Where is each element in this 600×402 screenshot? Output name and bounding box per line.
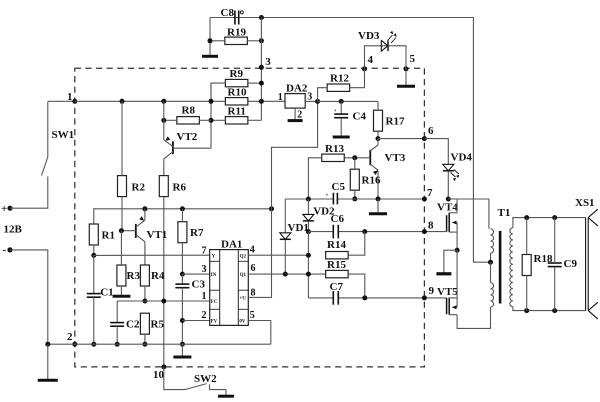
svg-text:+: + [334,109,337,114]
wire C8 left down [209,18,211,41]
wire C2 branch [116,301,118,322]
svg-text:R12: R12 [330,73,349,85]
wire R13 right lead [344,157,370,159]
wire R5 bottom lead [144,334,146,344]
svg-text:-: - [3,244,7,256]
ground rail wire node2 [48,343,271,345]
ground bottom left [47,344,49,380]
node 3 [259,65,264,70]
svg-text:R3: R3 [127,270,141,282]
resistor R4 [140,265,149,286]
svg-text:2: 2 [67,331,73,343]
junction R16 bottom [352,196,357,201]
svg-text:5: 5 [410,53,416,65]
wire R11 right lead [248,119,262,121]
svg-text:VT1: VT1 [147,229,168,241]
plus input terminal [7,206,12,211]
svg-text:IN: IN [211,273,217,278]
wire R8 left lead [164,119,177,121]
svg-text:4: 4 [250,245,255,256]
svg-text:R1: R1 [102,230,115,242]
wire node 6 to VD4 branch [424,139,448,165]
LED VD3 [381,40,388,51]
svg-text:R6: R6 [173,182,187,194]
junction primary center tap [488,260,493,265]
svg-text:8: 8 [428,220,434,232]
wire VT2 collector down to R6 [163,159,165,177]
transformer T1 secondary winding [510,228,513,307]
wire C9 top lead [554,218,556,263]
svg-text:VT4: VT4 [437,202,458,214]
junction common source point [455,248,460,253]
svg-text:C2: C2 [126,319,140,331]
svg-text:Q1: Q1 [240,273,247,278]
junction C2 bottom on rail [115,342,120,347]
IC DA2 box [285,94,305,109]
resistor R19 [225,37,248,44]
ground under C4 [333,136,350,139]
svg-text:10: 10 [153,369,165,381]
wire R12 left lead [318,88,328,102]
wire node10 to SW2 [164,367,185,390]
junction VD2 top on emitter line [306,197,311,202]
wire node7 line to primary top corner [448,199,489,229]
svg-text:R17: R17 [386,116,405,128]
ground at SW2 [225,390,227,397]
svg-text:C8: C8 [221,7,235,19]
junction VT2 emitter bus top [161,99,166,104]
svg-text:VT5: VT5 [437,286,458,298]
wire R18 top lead [526,218,528,255]
junction R14 left pin4 [306,253,311,258]
main wire node1 to DA2 pin1 [75,100,285,102]
svg-text:0V: 0V [239,319,246,324]
wire C7 line to node 9 [308,297,333,299]
resistor R14 [326,252,349,259]
junction VT1 collector on rail [142,206,147,211]
junction C1 bottom on rail [91,342,96,347]
wire R16 top lead [354,158,356,169]
junction C3 line on ground rail [180,342,185,347]
resistor R10 [225,98,248,105]
wire pin3 node to R17 top [318,100,378,102]
transformer T1 core [499,231,502,304]
wire SW2 to ground [210,389,227,391]
wire secondary top lead [513,218,586,228]
node 9 [422,295,427,300]
transistor VT1 [135,224,137,238]
wire VT2 base to R8 right bus [173,147,211,149]
wire minus terminal down to ground rail [10,250,48,344]
wire R8 right lead [199,119,211,121]
diode VD1 [284,199,286,233]
svg-text:T1: T1 [498,207,511,219]
resistor R16 [350,169,359,190]
wire R17 bottom lead [377,131,379,138]
svg-text:DA2: DA2 [286,83,308,95]
svg-text:7: 7 [427,187,433,199]
ground under sources [436,272,451,275]
wire R17 top lead [377,101,379,110]
svg-text:SW1: SW1 [52,129,75,141]
svg-text:R7: R7 [190,227,204,239]
resistor R11 [225,117,248,124]
wire SW1 to node 1 [48,100,75,102]
svg-text:R14: R14 [327,239,346,251]
junction VD4 bottom on node7 line [446,197,451,202]
wire R19 right lead [247,40,261,42]
wire pin 6 Q1 line [248,273,325,275]
svg-text:SW2: SW2 [194,373,217,385]
capacitor C3 [175,283,189,285]
junction VT3 emitter ground [376,196,381,201]
wire R1 bottom lead [93,245,95,255]
wire R9 right lead [248,82,262,84]
wire C9 bottom lead [554,267,556,311]
svg-text:C6: C6 [331,213,345,225]
resistor R5 [140,313,149,334]
junction node3 bus main wire [259,99,264,104]
svg-text:R15: R15 [327,259,346,271]
svg-text:C3: C3 [192,279,206,291]
resistor R1 [89,224,98,245]
svg-text:1: 1 [278,92,283,103]
ground under node 5 [405,69,407,86]
wire R2 top lead [121,101,123,175]
wire R6 bottom long vertical to FC and node 10 [163,197,165,367]
svg-text:R13: R13 [325,143,344,155]
node 5 [404,66,409,71]
junction DA2 pin3 node [315,99,320,104]
wire common point to ground [444,250,457,272]
svg-text:C4: C4 [353,111,367,123]
svg-text:R8: R8 [182,105,196,117]
wire VT4 source down to common point [456,223,458,251]
svg-text:R2: R2 [132,182,146,194]
wire C6 line to node 8 [308,231,333,233]
wire pin 2 FV line [182,320,209,322]
wire R12 right lead to node 4 [350,69,365,88]
wire R3 top lead [120,231,122,265]
transformer T1 primary lower winding [490,262,492,282]
junction VT1 base R2 R3 [119,228,124,233]
svg-text:1: 1 [67,91,73,103]
junction R4 R5 FC line [142,299,147,304]
svg-text:R9: R9 [230,68,244,80]
svg-text:C7: C7 [330,281,344,293]
ground bar under R3 [113,295,131,298]
LED VD4 [443,164,454,171]
diode VD2 [307,199,309,214]
wire plus terminal to SW1 [10,177,48,209]
capacitor C4 polarized [340,101,342,114]
wire vertical R9-R11 left bus [210,83,212,148]
wire VD2 bottom to R14 and pin6 [307,232,309,298]
ground under DA2 [288,119,303,122]
capacitor C7 [332,291,334,305]
junction C9 top [552,215,557,220]
junction R15 right on C7 line [362,295,367,300]
node 4 [362,66,367,71]
junction C3 pin2 wire [180,318,185,323]
wire R9 left lead [211,83,225,101]
junction R17 bottom VT3 collector [376,136,381,141]
junction R19 right [259,38,264,43]
wire pin 7 Y line [94,254,210,256]
svg-text:7: 7 [202,246,207,257]
svg-text:+U: +U [239,296,246,301]
junction R2 top [120,99,125,104]
wire R4 bottom lead [144,286,146,301]
resistor R2 [118,176,127,197]
svg-text:FC: FC [211,300,218,305]
wire R7 top lead [181,209,183,222]
resistor R6 [159,176,168,197]
node 10 [161,364,166,369]
wire VT5 top to common point [456,250,458,307]
node 7 [422,197,427,202]
wire secondary bottom lead [513,307,586,311]
junction R18 bottom [524,308,529,313]
capacitor C9 [548,262,562,264]
junction R18 top [524,215,529,220]
svg-text:+: + [326,194,329,199]
svg-text:R4: R4 [151,270,165,282]
wire R13 left lead down to VD line [308,158,321,199]
junction C9 bottom [552,308,557,313]
svg-text:3: 3 [202,264,207,275]
svg-text:DA1: DA1 [221,239,242,251]
svg-text:3: 3 [265,56,271,68]
wire R18 bottom lead [526,276,528,311]
switch SW2 [185,384,207,390]
resistor R18 [522,255,531,276]
resistor R17 [374,110,383,131]
junction minus wire on rail [45,342,50,347]
node 2 [72,342,77,347]
resistor R7 [178,222,187,243]
wire R3 bottom lead [120,286,122,295]
wire DA2 pin2 ground stem [294,108,296,120]
capacitor C2 [110,322,124,324]
svg-text:C9: C9 [564,258,578,270]
svg-text:C1: C1 [100,287,113,299]
svg-text:4: 4 [368,54,374,66]
svg-text:Q2: Q2 [240,254,247,259]
wire DA2 pin3 lead [305,100,317,102]
wire C3 bottom to pin2 junction [181,288,183,345]
junction R19 left [208,38,213,43]
wire emitter line VD1 to node 7 [285,198,333,200]
node 6 [422,136,427,141]
junction R6 FC line [161,299,166,304]
junction C4 top [339,99,344,104]
wire C2 bottom lead [116,326,118,344]
wire FC line [117,300,210,302]
transistor VT2 [172,141,174,154]
wire R1 junction down to C1 [93,255,95,294]
wire pin 4 Q2 line [248,254,308,256]
junction pin8 feed on rail [269,206,274,211]
svg-text:+: + [1,203,7,215]
svg-text:Y: Y [212,254,216,259]
junction R1 bottom pin7 wire [91,253,96,258]
resistor R8 [177,117,200,124]
node 1 [72,99,77,104]
wire C3 top lead [181,274,183,284]
svg-text:FV: FV [211,319,218,324]
svg-text:5: 5 [250,310,255,321]
junction VD2 bottom C6 line [306,229,311,234]
wire R11 left lead [211,119,225,121]
wire R15 right lead down [348,274,365,298]
svg-text:R10: R10 [228,86,247,98]
svg-text:VD4: VD4 [451,152,473,164]
junction R13 right R16 top [352,155,357,160]
junction R11 left R8 right [209,118,214,123]
svg-text:R16: R16 [362,175,381,187]
wire VT1 collector up [144,209,146,220]
wire pin 8 plus U line [248,101,317,297]
svg-text:VD3: VD3 [358,30,380,42]
svg-text:R19: R19 [227,26,246,38]
svg-text:XS1: XS1 [575,197,595,209]
wire VT1 emitter down to R4 [144,242,146,265]
wire VT5 drain down to primary bottom [457,307,490,328]
wire R2 bottom to VT1 base junction [121,197,123,231]
svg-text:VT3: VT3 [385,152,406,164]
IC DA1 box [210,250,249,326]
svg-text:2: 2 [297,110,302,121]
wire VD3 branch [365,46,407,69]
ground under C8 left [209,41,211,57]
ground under rail center [181,344,183,357]
svg-text:12В: 12В [4,224,23,236]
wire R7 C3 junction to DA1 pin3 [180,272,185,277]
wire VT4 drain up to primary top [456,199,458,213]
resistor R12 [327,84,350,91]
junction R5 bottom on rail [142,342,147,347]
capacitor C1 [87,293,101,295]
wire top rail from C8 to transformer feed [210,18,491,263]
capacitor C5 [332,193,334,205]
svg-text:VD1: VD1 [288,222,309,234]
wire R16 bottom lead [354,190,356,199]
capacitor C8 [234,11,236,25]
junction R7 top on rail [180,206,185,211]
transistor VT3 [369,150,371,166]
wire R17 junction to node 6 [378,138,424,140]
resistor R9 [225,79,248,86]
wire R7 bottom to pin3 junction [181,243,183,274]
wire VT2 emitter vertical [163,101,165,140]
resistor R15 [326,270,349,277]
svg-text:6: 6 [251,263,256,274]
switch SW1 [47,101,49,157]
resistor R13 [322,154,345,161]
transformer T1 primary upper winding [491,229,494,253]
ground under VT3 emitter line [377,199,379,214]
junction main/R10 left [209,99,214,104]
svg-text:1: 1 [202,291,207,302]
minus input terminal [7,247,12,252]
node 8 [422,229,427,234]
junction R15 left pin6 [306,272,311,277]
capacitor C6 [332,225,334,239]
svg-text:3: 3 [307,91,312,102]
svg-text:R5: R5 [151,319,165,331]
wire vertical node3 bus [260,18,262,121]
junction C8 right [259,15,264,20]
wire R19 left lead [210,40,225,42]
svg-text:VT2: VT2 [177,131,198,143]
dashed boundary box of converter module [75,68,425,367]
junction R8 left [161,118,166,123]
svg-text:6: 6 [428,125,434,137]
wire R14 right lead up [348,232,365,256]
supply rail wire [94,209,272,224]
svg-text:C5: C5 [332,181,346,193]
resistor R3 [117,265,126,286]
junction VD1 bottom pin6 line [283,272,288,277]
junction R14 right on C6 line [362,229,367,234]
wire pin 5 0V line [248,321,270,345]
svg-text:R11: R11 [228,105,246,117]
svg-text:9: 9 [429,285,435,297]
junction R9 right [259,81,264,86]
wire C1 bottom lead [93,297,95,344]
svg-text:2: 2 [202,310,207,321]
wire C4 bottom lead [340,118,342,136]
